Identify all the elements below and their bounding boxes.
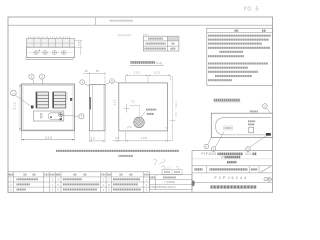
terminal block upper band [27,38,75,47]
side bottom dim ext [90,131,106,142]
slash in last cell [261,166,271,172]
front view inner rect [23,85,73,129]
front view outer rect [22,84,75,131]
LED square [31,106,34,109]
leader circle 5 (between views) [110,79,115,84]
body centerline [28,52,74,54]
parts row at 179.7 [10,178,148,182]
label: mounting hole detail (1:2) [131,61,156,64]
dim 335 line [22,139,75,141]
title line 1 [202,152,257,156]
notes rows [208,36,271,80]
svg-text:2 1 0: 2 1 0 [12,102,16,109]
title block frame [192,151,273,193]
mounting hole centerline cross [123,104,129,113]
svg-text:1 0 0: 1 0 0 [141,136,147,140]
revision row 2 text [146,43,166,45]
band divider [95,17,97,25]
svg-text:2 0: 2 0 [115,136,119,140]
title band line [8,24,273,26]
approval row texts [195,168,258,170]
recessed pocket [216,118,271,135]
parts row at 189.9 [10,188,148,192]
interior dim line [130,105,141,107]
general notes line 1 [56,150,179,152]
base plate line [25,58,73,60]
dot in pill [50,116,52,118]
leader line to circle 7 [63,115,79,116]
parts row at 184.8 [10,183,148,187]
tiny mark above screw 1 [39,50,40,51]
rear right vertical dim line [172,76,174,141]
detail title [214,99,240,102]
dim 210 vertical line [19,84,21,131]
leader circle 4 [80,80,85,85]
detail outer rect [211,113,272,137]
finish squiggle [127,127,132,129]
title block hlines [192,159,273,183]
svg-text:53: 53 [96,69,99,73]
side top dim ext lines [90,76,106,84]
svg-text:7 (1800S): 7 (1800S) [164,181,175,184]
text above pocket [250,110,258,112]
lower control box [33,111,63,121]
svg-text:F 1 P J 6 2 4 4: F 1 P J 6 2 4 4 [215,176,247,180]
parts table vlines [14,172,144,193]
speaker hole (hatched) [134,117,145,128]
company name [211,185,257,188]
side view back line [103,84,105,130]
leader circle 6 [111,80,113,82]
parts header texts [9,174,149,176]
dim 7.5 extension lines [75,40,83,55]
screw head 2 [43,50,47,54]
notes table box [207,28,273,85]
svg-text:P: P [222,155,224,159]
leader circle 10 (left) [11,90,17,96]
side view door line [91,84,93,130]
screw head 1 [34,50,38,54]
pill recess [48,113,62,120]
svg-text:7.5: 7.5 [77,41,81,46]
svg-text:1: 1 [31,75,33,79]
approval row cells [207,166,259,173]
ink stamp blob [192,180,195,186]
switch bank B [53,92,66,108]
svg-text:7: 7 [81,115,83,119]
title line 3 [227,161,237,164]
leader line 2 [41,79,44,92]
small slot in control box [40,114,42,119]
mounting top dim line [125,74,171,76]
mini box above middle block [162,170,182,175]
parts table outline [8,172,149,193]
mounting top dim ext lines [125,76,171,83]
rear bottom dim line [113,140,173,142]
general notes line 2 [119,155,134,157]
mounting view rect [119,83,168,131]
faint pencil note [118,34,132,36]
leader line 2b [266,108,270,113]
revision row 1 text [148,38,163,40]
svg-text:2: 2 [41,75,43,79]
leader line 5a [105,82,110,84]
revision row 3 text [145,48,167,50]
screw head 4 [62,50,66,54]
leader circle 2b [263,104,268,109]
label in pocket left [224,126,233,130]
svg-text:8 9: 8 9 [91,136,95,140]
svg-text:1 1 1: 1 1 1 [113,99,117,106]
dim 335 extension lines [22,131,75,141]
svg-text:3 5: 3 5 [175,112,178,116]
hole label leader [141,111,146,117]
leader line 1 [33,79,37,92]
hole label line 2 [147,113,154,115]
leader line 4 [84,84,90,86]
svg-text:(1:2): (1:2) [156,61,162,65]
svg-text:7 5: 7 5 [131,99,135,103]
jack circle [59,113,63,117]
band stamp text [110,20,134,22]
leader line 5b [114,82,119,83]
svg-text:3 1 5: 3 1 5 [164,167,171,171]
svg-text:1 2 3: 1 2 3 [154,71,160,75]
leader circle 1 [29,74,34,79]
svg-text:FD334-B525(2)-(200-2): FD334-B525(2)-(200-2) [151,186,176,189]
hole label line 1 [146,109,157,111]
svg-text:Y0. 5: Y0. 5 [243,7,259,13]
side top dim line [83,72,105,74]
reference header [150,176,155,178]
parts table hlines [8,177,149,187]
revision table [143,36,179,51]
dark latch strip [266,133,271,136]
rear right tick [170,119,176,121]
pocket right text 2 lines [248,120,255,122]
key hole square [249,127,254,133]
side view body [90,84,106,130]
handwritten scribbles [153,159,179,170]
leader circle 7 (right of front view) [79,114,84,119]
thin line near bank B [66,92,68,100]
svg-text:3 3 5: 3 3 5 [45,135,52,139]
leader circle 8 [204,144,209,149]
svg-text:F1PJ103: F1PJ103 [202,152,217,156]
reference block [149,175,192,190]
notes header text [235,30,239,32]
projection symbol [264,177,272,181]
side bottom dim line [90,140,106,142]
terminal band mid line [27,42,75,44]
rear bottom dim ext [119,131,168,142]
leader circle 2 [39,74,44,79]
svg-text:1CL: 1CL [245,152,252,156]
side view gasket (dark) [89,97,91,110]
leader circle 5b [246,147,251,152]
title line 2 [222,155,241,159]
svg-text:30: 30 [85,69,88,73]
leader line 8 [208,138,212,145]
leader circle 1b [211,147,216,152]
small dark button right [70,98,72,101]
svg-text:1 1 1: 1 1 1 [174,101,178,107]
notes header line [207,32,273,34]
leader line 1b [215,132,224,147]
switch bank A [36,92,49,108]
leader line 10 to LED [15,95,30,106]
dark mark below jack [60,118,62,120]
screw head 3 [52,50,56,54]
leader line 5c [250,136,267,147]
interior ext to speaker [139,106,141,117]
border frame [8,17,273,192]
terminal block body [27,47,75,57]
svg-text:1 2 3: 1 2 3 [134,71,140,75]
terminal screw tips (tick pairs) [29,37,70,39]
terminal band dividers [34,38,70,47]
